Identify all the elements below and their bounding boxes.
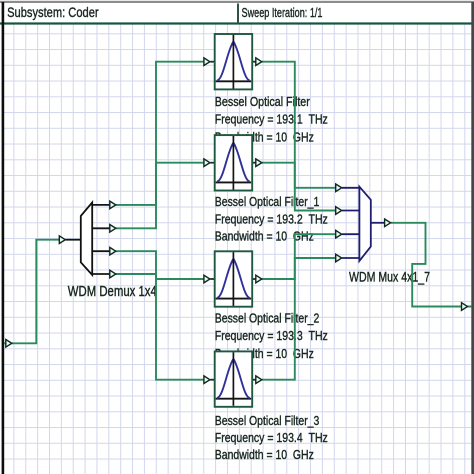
arrow mux input 3 (336, 230, 342, 238)
label Bessel Optical Filter value text (215, 94, 328, 145)
arrow input port at left edge (6, 340, 12, 348)
demux output pin 2 (92, 227, 110, 229)
wire demux pin1 to filter1 input (116, 62, 204, 205)
arrow mux input 1 (336, 184, 342, 192)
wire filter2 output to mux pin2 (262, 163, 336, 211)
wire filter1 output to mux pin1 (262, 62, 336, 188)
filter4 output pin (252, 379, 256, 381)
demux output pin 1 (92, 204, 110, 206)
wire input from left edge to demux (4, 240, 59, 344)
arrow mux output (385, 219, 391, 227)
arrow demux output 1 (110, 201, 116, 209)
svg-text:WDM Demux 1x4: WDM Demux 1x4 (68, 282, 157, 299)
label WDM Mux 4x1_7 (349, 269, 430, 284)
filter3 output pin (252, 278, 256, 280)
header text Sweep Iteration: 1/1 (242, 6, 323, 20)
wire demux pin3 to filter3 input (116, 251, 204, 279)
demux input pin (66, 239, 81, 241)
svg-text:Frequency = 193.2 THz: Frequency = 193.2 THz (215, 211, 328, 226)
arrow filter4 input (204, 376, 210, 384)
arrow filter3 output (256, 275, 262, 283)
arrow mux input 2 (336, 207, 342, 215)
label Bessel Optical Filter_3 value text (215, 413, 328, 462)
svg-text:Bessel Optical Filter_3: Bessel Optical Filter_3 (215, 413, 320, 428)
arrow demux output 4 (110, 270, 116, 278)
arrow filter4 output (256, 376, 262, 384)
arrow mux input 4 (336, 254, 342, 262)
arrow filter2 input (204, 159, 210, 167)
label Bessel Optical Filter_1 value text (215, 194, 328, 244)
arrow output port at right edge (462, 303, 468, 311)
filter3 input pin (210, 278, 214, 280)
arrow filter1 output (256, 58, 262, 66)
svg-text:Subsystem: Coder: Subsystem: Coder (7, 5, 99, 20)
wire filter4 output to mux pin4 (262, 258, 336, 380)
WDM Mux 4x1_7 component body (359, 187, 370, 261)
arrow demux output 3 (110, 247, 116, 255)
svg-text:Sweep Iteration: 1/1: Sweep Iteration: 1/1 (242, 6, 323, 20)
filter4 input pin (210, 379, 214, 381)
arrow filter3 input (204, 275, 210, 283)
demux output pin 4 (92, 273, 110, 275)
wire filter3 output to mux pin3 (262, 234, 336, 279)
demux output pin 3 (92, 250, 110, 252)
svg-text:Bandwidth = 10 GHz: Bandwidth = 10 GHz (215, 228, 314, 243)
arrow filter2 output (256, 159, 262, 167)
svg-text:Bessel Optical Filter_2: Bessel Optical Filter_2 (215, 310, 319, 325)
label WDM Demux 1x4 (68, 282, 157, 299)
mux input pin 4 (342, 257, 359, 259)
filter2 input pin (210, 162, 214, 164)
mux input pin 3 (342, 233, 359, 235)
header text Subsystem: Coder (7, 5, 99, 20)
svg-text:Bandwidth = 10 GHz: Bandwidth = 10 GHz (215, 447, 314, 462)
arrow filter1 input (204, 58, 210, 66)
svg-text:Frequency = 193.3 THz: Frequency = 193.3 THz (215, 328, 328, 343)
Bessel Optical Filter_1 component body (215, 135, 253, 190)
WDM Demux 1x4 component body (81, 203, 92, 275)
label Bessel Optical Filter_2 value text (215, 310, 328, 361)
mux input pin 1 (342, 187, 359, 189)
Bessel Optical Filter_2 component body (215, 251, 253, 306)
Bessel Optical Filter_3 component body (215, 351, 253, 406)
wire demux pin4 to filter4 input (116, 274, 204, 380)
wire demux pin2 to filter2 input (116, 163, 204, 229)
arrow into demux input (59, 236, 65, 244)
svg-text:Frequency = 193.1 THz: Frequency = 193.1 THz (215, 111, 328, 126)
filter2 output pin (252, 162, 256, 164)
filter1 output pin (252, 61, 256, 63)
svg-text:Frequency = 193.4 THz: Frequency = 193.4 THz (215, 430, 328, 445)
mux output pin (371, 222, 385, 224)
svg-text:Bessel Optical Filter_1: Bessel Optical Filter_1 (215, 194, 320, 209)
wire mux output to right edge (391, 223, 472, 307)
mux input pin 2 (342, 210, 359, 212)
arrow demux output 2 (110, 225, 116, 233)
Bessel Optical Filter component body (215, 34, 253, 89)
filter1 input pin (210, 61, 214, 63)
svg-text:WDM Mux 4x1_7: WDM Mux 4x1_7 (349, 269, 430, 284)
